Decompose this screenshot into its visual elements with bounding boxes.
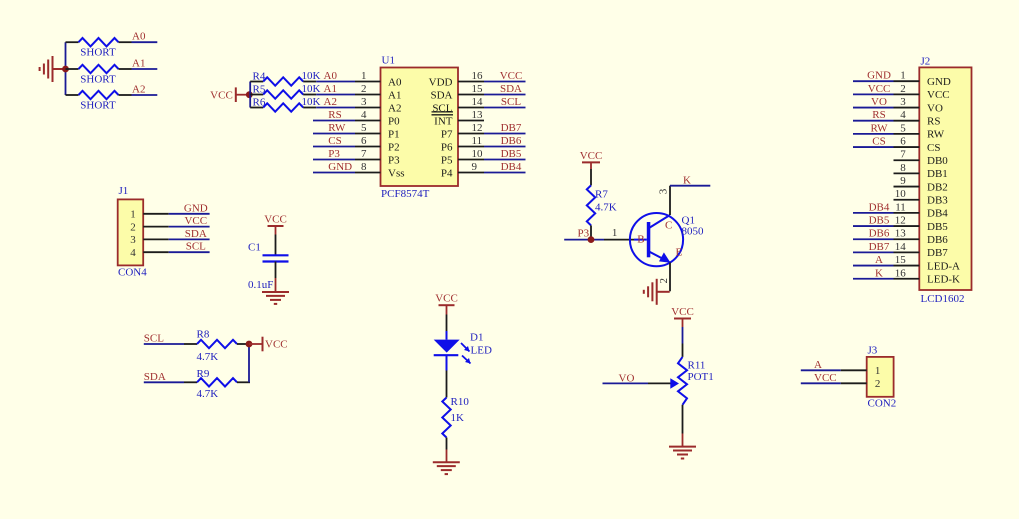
svg-text:7: 7: [900, 149, 906, 161]
svg-text:RW: RW: [870, 122, 888, 134]
svg-text:15: 15: [472, 83, 484, 95]
svg-text:SDA: SDA: [500, 83, 522, 95]
svg-text:P5: P5: [441, 154, 453, 166]
svg-text:LED-K: LED-K: [927, 274, 960, 286]
svg-text:15: 15: [895, 254, 907, 266]
svg-text:3: 3: [130, 234, 136, 246]
svg-text:DB5: DB5: [927, 221, 948, 233]
svg-text:8050: 8050: [682, 225, 705, 237]
svg-text:A0: A0: [324, 70, 338, 82]
svg-text:P4: P4: [441, 167, 453, 179]
svg-text:VCC: VCC: [265, 339, 288, 351]
svg-text:1: 1: [612, 227, 618, 239]
svg-text:3: 3: [658, 188, 670, 194]
svg-text:P3: P3: [578, 227, 590, 239]
svg-text:VCC: VCC: [264, 213, 287, 225]
svg-text:6: 6: [361, 135, 367, 147]
svg-text:GND: GND: [867, 70, 891, 82]
svg-text:RW: RW: [927, 129, 945, 141]
svg-text:K: K: [875, 267, 883, 279]
svg-text:14: 14: [472, 96, 484, 108]
svg-text:0.1uF: 0.1uF: [248, 279, 273, 291]
svg-text:GND: GND: [927, 76, 951, 88]
svg-text:U1: U1: [382, 55, 395, 67]
svg-text:13: 13: [472, 109, 484, 121]
svg-text:DB6: DB6: [927, 234, 948, 246]
svg-text:1: 1: [900, 70, 906, 82]
svg-text:R7: R7: [595, 189, 608, 201]
svg-text:VCC: VCC: [868, 83, 891, 95]
svg-text:R4: R4: [253, 71, 266, 83]
svg-text:R11: R11: [688, 359, 706, 371]
svg-text:1: 1: [875, 365, 881, 377]
svg-text:J2: J2: [921, 56, 931, 68]
svg-text:A1: A1: [132, 57, 145, 69]
svg-text:SCL: SCL: [501, 96, 521, 108]
svg-text:VCC: VCC: [210, 89, 233, 101]
svg-text:PCF8574T: PCF8574T: [381, 188, 430, 200]
svg-text:DB7: DB7: [869, 241, 890, 253]
svg-text:4: 4: [361, 109, 367, 121]
svg-text:P7: P7: [441, 128, 453, 140]
svg-text:DB0: DB0: [927, 155, 948, 167]
svg-text:R5: R5: [253, 84, 266, 96]
svg-text:C: C: [665, 220, 672, 232]
svg-text:8: 8: [900, 162, 906, 174]
svg-text:DB6: DB6: [501, 135, 522, 147]
svg-text:A2: A2: [132, 83, 145, 95]
svg-text:VCC: VCC: [671, 306, 694, 318]
svg-text:VCC: VCC: [435, 293, 458, 305]
svg-text:4.7K: 4.7K: [595, 202, 617, 214]
svg-text:16: 16: [472, 70, 484, 82]
svg-text:SDA: SDA: [185, 228, 207, 240]
svg-text:A0: A0: [388, 76, 402, 88]
svg-text:P0: P0: [388, 115, 400, 127]
svg-text:8: 8: [361, 161, 367, 173]
svg-text:SCL: SCL: [186, 241, 206, 253]
svg-text:A1: A1: [324, 83, 337, 95]
svg-text:DB5: DB5: [869, 215, 890, 227]
svg-text:P2: P2: [388, 141, 400, 153]
svg-text:1: 1: [130, 209, 136, 221]
svg-text:VCC: VCC: [927, 89, 950, 101]
svg-text:Vss: Vss: [388, 167, 405, 179]
svg-text:1: 1: [361, 70, 367, 82]
svg-text:9: 9: [472, 161, 478, 173]
svg-text:10K: 10K: [302, 83, 321, 95]
svg-text:B: B: [637, 234, 644, 246]
svg-text:4: 4: [900, 109, 906, 121]
svg-text:SHORT: SHORT: [80, 47, 116, 59]
svg-text:VO: VO: [619, 372, 635, 384]
svg-text:RS: RS: [872, 109, 885, 121]
svg-text:5: 5: [900, 122, 906, 134]
svg-text:12: 12: [895, 215, 906, 227]
svg-text:10K: 10K: [302, 96, 321, 108]
svg-text:VO: VO: [927, 102, 943, 114]
svg-text:4: 4: [130, 247, 136, 259]
svg-text:POT1: POT1: [688, 371, 714, 383]
svg-text:A: A: [814, 359, 822, 371]
svg-text:A1: A1: [388, 89, 401, 101]
svg-text:DB3: DB3: [927, 195, 948, 207]
svg-text:CS: CS: [927, 142, 940, 154]
svg-text:DB4: DB4: [869, 201, 890, 213]
svg-text:CS: CS: [872, 136, 885, 148]
svg-text:10: 10: [472, 148, 484, 160]
svg-text:SDA: SDA: [430, 89, 452, 101]
svg-text:2: 2: [130, 221, 136, 233]
svg-text:SHORT: SHORT: [80, 99, 116, 111]
svg-text:VDD: VDD: [429, 76, 453, 88]
svg-text:13: 13: [895, 228, 907, 240]
svg-text:2: 2: [361, 83, 367, 95]
svg-text:R10: R10: [451, 396, 470, 408]
svg-text:A0: A0: [132, 31, 146, 43]
svg-text:J3: J3: [868, 345, 878, 357]
svg-text:RW: RW: [328, 122, 346, 134]
svg-text:5: 5: [361, 122, 367, 134]
svg-text:DB7: DB7: [501, 122, 522, 134]
svg-text:11: 11: [895, 201, 906, 213]
svg-text:14: 14: [895, 241, 907, 253]
svg-text:6: 6: [900, 136, 906, 148]
svg-text:VCC: VCC: [814, 372, 837, 384]
svg-text:P1: P1: [388, 128, 400, 140]
svg-text:P6: P6: [441, 141, 453, 153]
svg-text:DB1: DB1: [927, 168, 948, 180]
svg-text:11: 11: [472, 135, 483, 147]
svg-text:LED: LED: [471, 345, 492, 357]
svg-text:2: 2: [875, 378, 881, 390]
svg-text:SHORT: SHORT: [80, 73, 116, 85]
svg-text:DB6: DB6: [869, 228, 890, 240]
svg-text:VCC: VCC: [500, 70, 523, 82]
svg-text:4.7K: 4.7K: [197, 388, 219, 400]
svg-text:RS: RS: [927, 116, 940, 128]
svg-text:A2: A2: [388, 102, 401, 114]
svg-text:RS: RS: [328, 109, 341, 121]
svg-text:7: 7: [361, 148, 367, 160]
svg-text:10: 10: [895, 188, 907, 200]
svg-text:3: 3: [361, 96, 367, 108]
svg-text:DB2: DB2: [927, 181, 948, 193]
svg-text:DB7: DB7: [927, 247, 948, 259]
svg-text:VO: VO: [871, 96, 887, 108]
svg-text:DB4: DB4: [501, 161, 522, 173]
svg-text:9: 9: [900, 175, 906, 187]
svg-text:GND: GND: [184, 202, 208, 214]
svg-text:K: K: [683, 175, 691, 187]
svg-text:P3: P3: [328, 148, 340, 160]
svg-text:CON4: CON4: [118, 267, 147, 279]
svg-text:INT: INT: [434, 115, 453, 127]
svg-text:VCC: VCC: [580, 150, 603, 162]
svg-text:R6: R6: [253, 97, 266, 109]
svg-text:10K: 10K: [302, 70, 321, 82]
svg-text:CS: CS: [328, 135, 341, 147]
svg-text:A: A: [875, 254, 883, 266]
svg-text:CON2: CON2: [868, 398, 897, 410]
svg-text:R9: R9: [197, 368, 210, 380]
svg-text:VCC: VCC: [184, 215, 207, 227]
svg-text:P3: P3: [388, 154, 400, 166]
svg-text:LED-A: LED-A: [927, 260, 960, 272]
svg-text:E: E: [676, 246, 683, 258]
svg-text:12: 12: [472, 122, 483, 134]
svg-text:16: 16: [895, 267, 907, 279]
svg-text:SDA: SDA: [144, 371, 166, 383]
svg-text:2: 2: [900, 83, 906, 95]
svg-text:GND: GND: [328, 161, 352, 173]
svg-text:DB5: DB5: [501, 148, 522, 160]
svg-text:DB4: DB4: [927, 208, 948, 220]
svg-text:1K: 1K: [451, 412, 465, 424]
svg-text:C1: C1: [248, 242, 261, 254]
svg-text:SCL: SCL: [144, 333, 164, 345]
svg-text:LCD1602: LCD1602: [921, 293, 965, 305]
svg-text:J1: J1: [119, 185, 129, 197]
svg-text:3: 3: [900, 96, 906, 108]
svg-text:2: 2: [658, 278, 670, 284]
svg-text:D1: D1: [470, 332, 483, 344]
svg-text:R8: R8: [197, 329, 210, 341]
svg-text:A2: A2: [324, 96, 337, 108]
svg-text:4.7K: 4.7K: [197, 351, 219, 363]
